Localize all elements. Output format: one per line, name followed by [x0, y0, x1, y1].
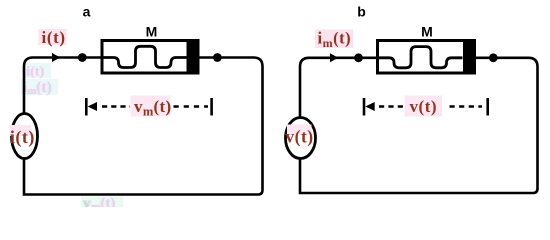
voltage annotation vm(t): right dashes — [174, 105, 209, 108]
wire: loop of circuit b — [300, 58, 538, 193]
voltage annotation v(t): left arrowhead — [365, 102, 374, 111]
voltage annotation v(t): left bar — [363, 98, 366, 116]
ghost node label vm(t) bottom — [81, 195, 123, 213]
voltage annotation vm(t): right bar — [210, 98, 213, 116]
node dot right — [489, 53, 498, 62]
svg-text:a: a — [83, 4, 91, 20]
arrow on top wire — [52, 53, 60, 62]
svg-text:M: M — [421, 24, 433, 40]
svg-text:im(t): im(t) — [318, 29, 352, 51]
svg-text:i(t): i(t) — [10, 127, 35, 148]
voltage source v(t) — [286, 118, 316, 159]
ghost node label im(t) — [21, 79, 58, 98]
current label im(t) — [315, 30, 353, 49]
voltage annotation v(t): right dashes — [450, 105, 483, 108]
svg-text:i(t): i(t) — [27, 65, 45, 80]
svg-text:b: b — [357, 4, 366, 20]
memristor polarity bar — [187, 41, 199, 74]
node dot left — [78, 53, 87, 62]
current source i(t) — [12, 114, 38, 159]
voltage annotation v(t): label — [405, 96, 443, 117]
memristor polarity bar — [463, 41, 475, 74]
svg-text:M: M — [146, 24, 158, 40]
node dot right — [213, 53, 222, 62]
voltage annotation vm(t): left bar — [85, 98, 88, 116]
memristor M box — [378, 41, 475, 74]
ghost node label i(t) — [23, 63, 51, 80]
voltage annotation v(t): right bar — [486, 98, 489, 116]
voltage annotation vm(t): left dashes — [102, 105, 130, 108]
node dot left — [354, 53, 363, 62]
arrow on top wire — [330, 53, 338, 62]
memristor squiggle — [378, 47, 463, 68]
wire: loop of circuit a — [24, 58, 263, 195]
voltage annotation v(t): left dashes — [379, 105, 403, 108]
voltage annotation vm(t): label — [131, 96, 171, 117]
svg-text:i(t): i(t) — [42, 28, 66, 47]
current label i(t) — [39, 29, 67, 45]
memristor M box — [102, 41, 198, 74]
svg-text:vm(t): vm(t) — [134, 97, 171, 119]
voltage annotation vm(t): left arrowhead — [88, 102, 97, 111]
memristor squiggle — [102, 46, 187, 67]
svg-text:v(t): v(t) — [410, 97, 437, 116]
svg-text:vm(t): vm(t) — [84, 195, 116, 207]
svg-text:v(t): v(t) — [285, 127, 313, 147]
